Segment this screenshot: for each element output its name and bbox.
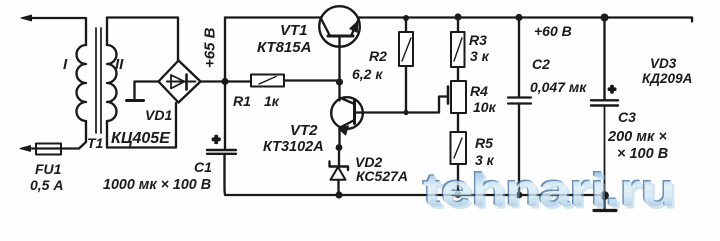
node junction R2 / top rail	[403, 15, 409, 21]
svg-text:3 к: 3 к	[470, 48, 490, 64]
node junction bridge/R1/rail	[221, 78, 228, 85]
node junction R3 / top rail	[454, 13, 461, 20]
svg-text:R5: R5	[475, 135, 493, 151]
transistor VT2 collector stroke	[340, 98, 355, 105]
wire AC input bottom lead with arrow	[20, 146, 33, 152]
zener diode VD2 cathode bar	[330, 162, 349, 171]
svg-text:С3: С3	[618, 109, 636, 125]
wire AC input top lead with arrow	[21, 15, 86, 45]
svg-text:+65 В: +65 В	[202, 27, 219, 68]
transistor VT2 body circle	[331, 97, 363, 129]
svg-text:С1: С1	[194, 159, 212, 175]
svg-text:Т1: Т1	[87, 135, 104, 151]
transistor VT1 emitter stroke with arrow	[350, 18, 360, 37]
node junction C2 / ground rail	[516, 192, 523, 199]
wire R4 to R5	[457, 113, 459, 132]
node junction R5 / ground rail	[454, 191, 461, 198]
wire zener bottom lead	[337, 180, 339, 195]
svg-text:VT2: VT2	[290, 122, 318, 139]
node junction C3 / top rail	[601, 14, 609, 22]
svg-text:FU1: FU1	[35, 161, 62, 177]
svg-text:10к: 10к	[473, 99, 497, 115]
transistor VT1 collector stroke	[321, 18, 331, 37]
svg-text:С2: С2	[532, 56, 550, 72]
capacitor C3 plates	[591, 100, 618, 105]
potentiometer R4 wiper bar	[447, 87, 450, 104]
resistor R2	[399, 32, 413, 66]
svg-text:КЦ405Е: КЦ405Е	[111, 130, 171, 147]
wire C3 bottom lead	[604, 106, 606, 196]
svg-text:R1: R1	[233, 93, 251, 109]
svg-text:R3: R3	[469, 32, 487, 48]
bridge rectifier VD1 inner diode	[167, 75, 196, 90]
svg-text:R4: R4	[470, 83, 488, 99]
svg-text:II: II	[115, 56, 124, 73]
transformer T1 core	[96, 28, 101, 133]
svg-text:200 мк ×: 200 мк ×	[607, 129, 667, 145]
svg-text:6,2 к: 6,2 к	[352, 66, 383, 82]
wire C2 top lead	[518, 18, 520, 98]
svg-text:КД209А: КД209А	[642, 71, 692, 86]
svg-text:× 100 В: × 100 В	[617, 146, 668, 162]
transformer T1 secondary winding II	[107, 45, 117, 121]
svg-text:1к: 1к	[264, 93, 280, 109]
wire R5 bottom lead	[457, 164, 459, 195]
transistor VT1 body circle	[319, 6, 360, 47]
svg-text:0,047 мк: 0,047 мк	[530, 79, 587, 95]
transistor VT2 emitter stroke with arrow	[339, 120, 355, 135]
potentiometer R4	[451, 81, 466, 113]
wire R3 top lead	[457, 17, 459, 32]
wire primary bottom to fuse	[70, 121, 86, 149]
watermark tehnari.ru	[422, 164, 678, 219]
wire R2 top lead	[405, 18, 407, 33]
svg-text:+: +	[608, 82, 616, 97]
wire R3 to R4	[457, 67, 459, 81]
chassis ground symbol at bridge	[127, 99, 144, 102]
svg-text:VD3: VD3	[650, 56, 677, 71]
svg-text:I: I	[63, 56, 68, 73]
node junction VT2 emitter / VD2	[336, 144, 343, 151]
svg-text:КС527А: КС527А	[356, 168, 408, 184]
svg-text:КТ3102А: КТ3102А	[263, 139, 324, 155]
wire VT2 emitter down to zener	[338, 129, 340, 148]
wire VT2 collector	[338, 82, 340, 101]
transistor VT1 base bar	[328, 35, 353, 38]
wire bridge plus (right corner) to +65V rail	[201, 80, 226, 82]
svg-text:VT1: VT1	[280, 22, 308, 39]
svg-text:tehnari.ru: tehnari.ru	[423, 165, 675, 216]
wire C1 bottom to ground rail corner	[225, 155, 340, 196]
wire top rail end tick	[691, 18, 693, 22]
capacitor C1 plates	[207, 150, 236, 154]
zener diode VD2 triangle	[331, 167, 346, 180]
node junction C2 / top rail	[515, 14, 522, 21]
fuse FU1	[33, 144, 70, 155]
wire VT2 base to R4 wiper	[355, 97, 448, 113]
svg-text:0,5 А: 0,5 А	[30, 177, 63, 193]
chassis ground symbol at rail end	[594, 196, 616, 211]
wire +65V vertical rail (rectifier output)	[224, 18, 226, 149]
wire top rail VT1 emitter to +60V output end	[360, 16, 693, 18]
wire ground rail middle	[339, 194, 605, 196]
transistor VT2 base bar	[353, 101, 356, 124]
node junction VT1 base / R1 / VT2 collector	[336, 78, 343, 85]
svg-text:+: +	[212, 132, 220, 147]
wire secondary bottom to bridge bottom corner	[107, 103, 176, 148]
wire C3 top lead	[603, 18, 605, 100]
svg-text:КТ815А: КТ815А	[257, 39, 311, 56]
wire bridge minus (left corner) to chassis	[135, 82, 159, 99]
node junction VD2 / ground rail	[335, 191, 342, 198]
resistor R5	[451, 132, 467, 164]
node junction R2 / base wire	[403, 110, 408, 115]
node junction C3 / ground rail end	[600, 191, 609, 200]
wire top rail +65V from rectifier to VT1 collector	[225, 16, 321, 18]
svg-text:1000 мк × 100 В: 1000 мк × 100 В	[103, 177, 211, 193]
wire R1 leads	[225, 81, 339, 82]
wire C2 bottom lead	[518, 104, 520, 195]
svg-text:R2: R2	[369, 48, 387, 64]
wire zener top lead	[338, 148, 340, 167]
bridge rectifier VD1 diamond	[159, 61, 201, 103]
resistor R1	[251, 75, 284, 87]
resistor R3	[451, 32, 465, 67]
capacitor C2 plates	[508, 98, 531, 104]
wire R2 bottom lead to VT2 base line	[405, 66, 407, 113]
transformer T1 primary winding I	[77, 45, 87, 121]
wire secondary top to bridge top corner	[107, 18, 178, 61]
svg-text:+60 В: +60 В	[534, 23, 572, 39]
wire VT1 base down to node	[338, 37, 340, 82]
svg-text:VD1: VD1	[145, 107, 172, 123]
